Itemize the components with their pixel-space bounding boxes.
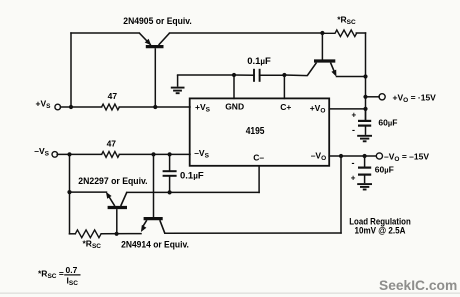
svg-text:60µF: 60µF — [375, 165, 394, 175]
svg-text:2N4905 or Equiv.: 2N4905 or Equiv. — [123, 16, 192, 27]
wire box +Vo pin to rail — [329, 108, 365, 110]
resistor R2 47 bottom — [102, 152, 120, 158]
transistor Q4 2N4914 — [141, 219, 165, 234]
wire RSC2 to Q4 emitter — [101, 233, 141, 235]
svg-text:2N4914 or Equiv.: 2N4914 or Equiv. — [121, 239, 189, 250]
node junction Q1 base — [153, 105, 157, 109]
wire 47 to box -Vs pin — [119, 153, 190, 155]
node junction GND — [232, 73, 236, 77]
wire top-left vertical — [70, 33, 72, 107]
svg-text:60µF: 60µF — [378, 117, 397, 127]
resistor R1 47 top — [102, 104, 120, 110]
wire +Vs input to box — [61, 106, 102, 108]
wire Q1 collector to RSC node — [170, 32, 323, 34]
node junction -Vs left — [67, 152, 71, 156]
wire vertical RSC to output rail — [365, 33, 367, 120]
wire C- pin vertical — [258, 166, 260, 193]
svg-text:-: - — [352, 125, 355, 135]
node junction +Vs left — [69, 105, 73, 109]
transistor Q2 current limit top — [307, 61, 336, 77]
wire GND node to C1 — [234, 74, 254, 76]
wire C2 top stem — [169, 154, 171, 170]
wire -Vs input to 47 — [57, 153, 101, 155]
ground symbol below C4 — [357, 175, 372, 190]
wire RSC right end — [356, 32, 365, 34]
node junction +Vo pin — [363, 107, 367, 111]
transistor Q3 2N2297 — [106, 192, 127, 234]
node junction -Vo branch — [339, 154, 343, 158]
wire Q3 emitter horizontal — [70, 191, 107, 193]
svg-text:2N2297 or Equiv.: 2N2297 or Equiv. — [78, 176, 147, 187]
wire C3 stem — [365, 109, 367, 121]
wire RSC2 line left — [70, 233, 76, 235]
wire C2 bottom stem — [169, 177, 171, 193]
node junction C4 top — [363, 154, 367, 158]
wire bottom-left vertical — [69, 154, 71, 233]
terminal +Vo output — [379, 94, 385, 100]
terminal +Vs input — [55, 104, 61, 110]
resistor RSC bottom — [75, 230, 101, 238]
node junction output rail top — [363, 74, 367, 78]
capacitor C2 0.1uF bottom — [163, 171, 177, 176]
node junction C+ — [282, 73, 286, 77]
node junction Q4 base — [151, 152, 155, 156]
transistor Q1 2N4905 — [139, 33, 169, 107]
wire Q2 emitter to output rail — [337, 76, 366, 78]
svg-text:+VO = ·15V: +VO = ·15V — [393, 93, 437, 105]
wire C4 stem — [364, 156, 366, 168]
svg-text:+: + — [352, 111, 357, 120]
svg-text:+: + — [351, 174, 356, 183]
capacitor C4 60uF bottom — [358, 168, 371, 175]
resistor RSC top — [322, 30, 356, 37]
ground symbol below C3 — [357, 126, 372, 142]
node junction RSC left — [320, 31, 324, 35]
svg-text:0.1µF: 0.1µF — [247, 56, 271, 67]
node junction C2 bottom — [168, 190, 172, 194]
wire 47 to box +Vs pin — [119, 106, 190, 108]
capacitor C3 60uF top — [358, 121, 371, 126]
svg-text:–VO = –15V: –VO = –15V — [384, 151, 429, 163]
svg-text:C+: C+ — [280, 102, 291, 112]
svg-text:-: - — [352, 158, 355, 168]
node junction Q3 emitter — [67, 190, 71, 194]
svg-text:47: 47 — [107, 139, 117, 149]
faint scan streak — [0, 292, 460, 294]
wire C+ node to Q2 collector — [284, 74, 307, 77]
wire Q3 collector to C- pin — [127, 191, 259, 193]
wire C+ pin vertical — [283, 75, 285, 98]
IC U1 4195 box — [190, 98, 330, 165]
terminal -Vs input — [52, 152, 58, 158]
svg-text:4195: 4195 — [246, 126, 265, 137]
node junction Q3 base — [115, 232, 119, 236]
ground symbol near GND pin — [171, 75, 185, 93]
wire box -Vo pin to output — [329, 155, 376, 157]
svg-text:0.1µF: 0.1µF — [180, 170, 204, 181]
wire bottom right vertical — [340, 156, 342, 233]
capacitor C1 0.1uF top — [254, 69, 260, 82]
wire ground to GND pin node — [178, 74, 234, 76]
wire Q4 base vertical — [153, 154, 155, 217]
wire C1 to C+ node — [260, 74, 285, 76]
wire Q2 base vertical — [321, 33, 323, 59]
terminal -Vo output — [376, 153, 382, 159]
svg-text:10mV @ 2.5A: 10mV @ 2.5A — [355, 225, 407, 235]
wire Q4 collector long bottom — [165, 232, 341, 234]
svg-text:C–: C– — [253, 152, 264, 162]
wire +Vo output stub — [366, 96, 380, 98]
svg-text:47: 47 — [108, 91, 118, 101]
svg-text:SeekIC.com: SeekIC.com — [379, 278, 457, 293]
svg-text:0.7: 0.7 — [66, 265, 78, 275]
node junction +Vo out — [363, 95, 367, 99]
node junction C2 top — [168, 152, 172, 156]
wire GND pin vertical — [233, 75, 235, 98]
wire top from vertical to Q1 emitter — [71, 32, 139, 34]
svg-text:GND: GND — [225, 101, 244, 111]
